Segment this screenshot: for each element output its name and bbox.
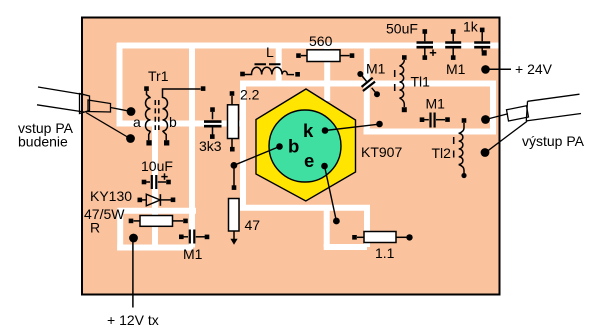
capacitor 50uF bbox=[417, 29, 437, 60]
connector input coax bbox=[37, 87, 128, 137]
svg-text:560: 560 bbox=[309, 33, 333, 49]
svg-text:2.2: 2.2 bbox=[240, 87, 260, 103]
node +24V terminal bbox=[481, 65, 511, 74]
resistor 1.1 bbox=[352, 232, 412, 243]
label budenie bbox=[18, 134, 68, 150]
svg-text:M1: M1 bbox=[426, 96, 446, 112]
node input terminal upper bbox=[127, 107, 136, 116]
wire emitter loop bottom band bbox=[324, 244, 367, 250]
label M1 (coupling) bbox=[366, 61, 386, 77]
label +24V bbox=[515, 61, 553, 77]
label M1 (output) bbox=[426, 96, 446, 112]
resistor 560 bbox=[296, 50, 354, 62]
node output terminal upper bbox=[481, 114, 508, 124]
svg-text:KY130: KY130 bbox=[90, 188, 132, 204]
svg-text:b: b bbox=[169, 114, 177, 130]
label 1k bbox=[463, 19, 479, 35]
label Tl2 bbox=[432, 145, 452, 161]
label L bbox=[266, 44, 274, 60]
wire drop rail to L band bbox=[276, 44, 282, 84]
svg-text:budenie: budenie bbox=[18, 134, 68, 150]
inductor Tl2 bbox=[454, 123, 464, 173]
wire band under transistor bbox=[240, 205, 370, 211]
label Tl1 bbox=[411, 74, 431, 90]
label Tr1 bbox=[148, 68, 169, 84]
label vstup PA bbox=[18, 120, 74, 136]
svg-text:k: k bbox=[303, 120, 314, 141]
svg-text:L: L bbox=[266, 44, 274, 60]
inductor L bbox=[245, 64, 295, 74]
pointer k (collector) bbox=[322, 121, 383, 134]
capacitor M1 (output coupling) bbox=[420, 113, 450, 128]
wire bottom-left band bbox=[117, 245, 193, 251]
svg-text:3k3: 3k3 bbox=[199, 138, 222, 154]
svg-text:47: 47 bbox=[245, 217, 261, 233]
label e bbox=[304, 150, 314, 171]
label 50uF bbox=[386, 21, 418, 37]
wire band under KY130 bbox=[118, 208, 197, 214]
label 47/5W bbox=[84, 206, 125, 222]
pointer e (emitter) bbox=[321, 163, 340, 225]
wire emitter loop right vertical bbox=[364, 208, 370, 247]
label 10uF bbox=[141, 158, 173, 174]
label 3k3 bbox=[199, 138, 222, 154]
wire drop behind 560 to transistor top bbox=[324, 44, 330, 101]
board background bbox=[82, 18, 500, 295]
svg-text:+ 12V tx: + 12V tx bbox=[107, 312, 159, 328]
label 1.1 bbox=[375, 245, 395, 261]
svg-text:KT907: KT907 bbox=[361, 144, 402, 160]
svg-text:M1: M1 bbox=[183, 246, 203, 262]
svg-text:Tr1: Tr1 bbox=[148, 68, 169, 84]
label KY130 bbox=[90, 188, 132, 204]
wire vertical left of transistor bbox=[240, 84, 246, 208]
svg-text:Tl2: Tl2 bbox=[432, 145, 452, 161]
resistor 2.2 bbox=[228, 91, 239, 151]
wire output band bbox=[364, 129, 497, 135]
transistor KT907 hexagon case bbox=[256, 89, 356, 201]
node +12V tx terminal bbox=[129, 234, 138, 308]
wire band under L (collector feed) bbox=[240, 81, 496, 87]
pointer b (base) bbox=[231, 143, 283, 169]
svg-text:10uF: 10uF bbox=[141, 158, 173, 174]
wire left lower vertical bbox=[117, 208, 123, 250]
wire horizontal band input row bbox=[117, 121, 247, 127]
transistor KT907 can bbox=[269, 110, 341, 182]
label +12V tx bbox=[107, 312, 159, 328]
capacitor 1k bbox=[474, 28, 490, 56]
svg-text:50uF: 50uF bbox=[386, 21, 418, 37]
resistor 47/5W bbox=[129, 216, 188, 227]
svg-text:a: a bbox=[133, 114, 141, 130]
wire collector column (Tl1/M1) bbox=[364, 44, 370, 132]
label a (Tr1 winding) bbox=[133, 114, 141, 130]
label 47 bbox=[245, 217, 261, 233]
capacitor 3k3 bbox=[204, 112, 222, 135]
svg-text:e: e bbox=[304, 150, 314, 171]
svg-text:+ 24V: + 24V bbox=[515, 61, 553, 77]
svg-text:M1: M1 bbox=[446, 61, 466, 77]
inductor Tl1 bbox=[395, 60, 405, 107]
connector output coax bbox=[507, 94, 582, 121]
wire output right vertical bbox=[490, 81, 496, 132]
svg-text:výstup PA: výstup PA bbox=[522, 133, 585, 149]
label b (Tr1 winding) bbox=[169, 114, 177, 130]
node output terminal lower bbox=[481, 121, 527, 157]
svg-text:Tl1: Tl1 bbox=[411, 74, 431, 90]
capacitor M1 (top middle) bbox=[445, 29, 461, 60]
wire +24V top rail bbox=[117, 43, 499, 49]
svg-text:1k: 1k bbox=[463, 19, 479, 35]
label KT907 bbox=[361, 144, 402, 160]
svg-text:b: b bbox=[288, 136, 299, 157]
resistor 47 bbox=[229, 166, 240, 245]
wire left drop from rail bbox=[117, 43, 123, 127]
wire emitter loop left vertical bbox=[324, 208, 330, 247]
label k bbox=[303, 120, 314, 141]
label M1 (top) bbox=[446, 61, 466, 77]
label vystup PA bbox=[522, 133, 585, 149]
capacitor 10uF bbox=[142, 173, 171, 189]
label b bbox=[288, 136, 299, 157]
svg-text:1.1: 1.1 bbox=[375, 245, 395, 261]
diode KY130 bbox=[138, 194, 176, 206]
node input terminal lower bbox=[126, 134, 135, 143]
svg-text:R: R bbox=[90, 220, 100, 236]
label M1 (bottom) bbox=[183, 246, 203, 262]
capacitor M1 (coupling, diagonal) bbox=[361, 74, 378, 94]
wire vertical through Tr1 b column bbox=[189, 44, 195, 248]
transformer Tr1 bbox=[146, 89, 201, 140]
label 560 bbox=[309, 33, 333, 49]
label R bbox=[90, 220, 100, 236]
capacitor M1 (bottom) bbox=[179, 230, 209, 244]
svg-text:M1: M1 bbox=[366, 61, 386, 77]
wire vertical 12V feed (10uF/KY130 column) bbox=[152, 122, 158, 248]
label 2.2 bbox=[240, 87, 260, 103]
